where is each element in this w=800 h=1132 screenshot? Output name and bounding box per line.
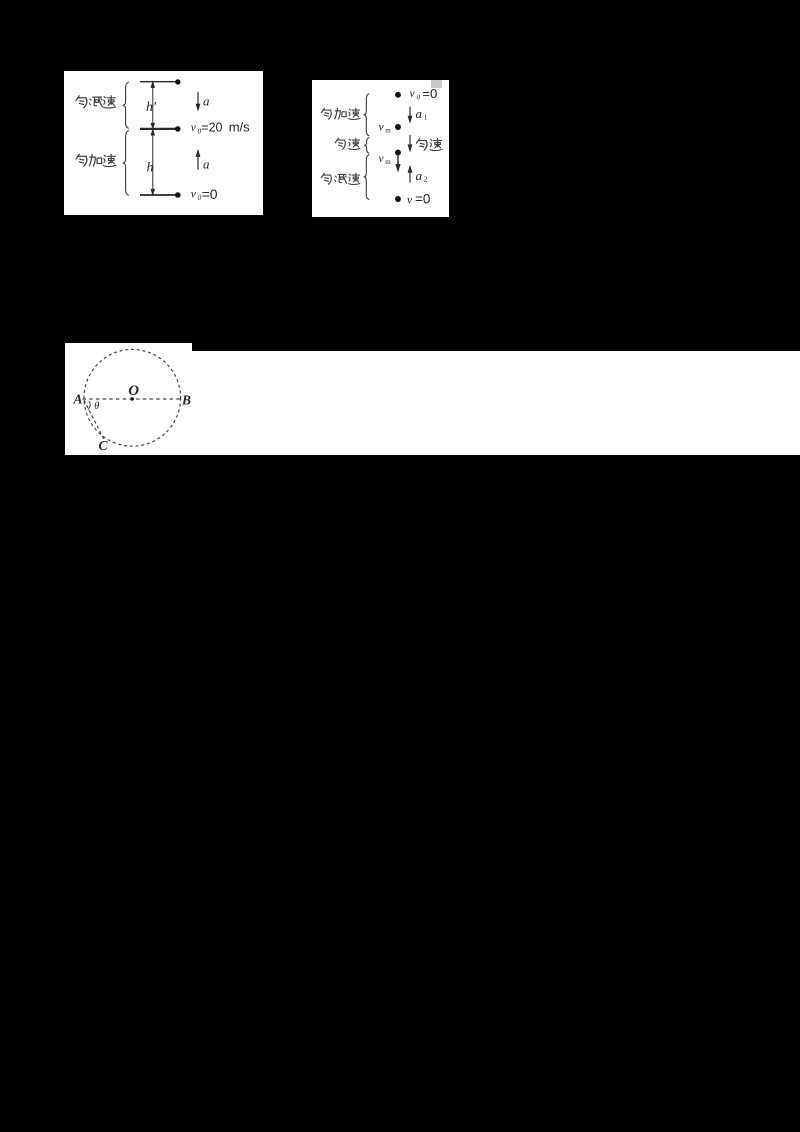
svg-text:θ: θ	[94, 401, 99, 412]
diagram 2: acceleration / uniform / deceleration phases	[312, 80, 449, 217]
dot 3	[395, 150, 401, 156]
arrow a (up)	[196, 151, 199, 170]
svg-text:v: v	[379, 153, 385, 165]
top level line	[140, 81, 180, 83]
center dot O	[131, 397, 134, 400]
diameter AB (dashed)	[83, 398, 183, 400]
svg-text:=0: =0	[202, 186, 218, 202]
svg-text:A: A	[73, 392, 83, 407]
label v0=0	[410, 86, 438, 101]
svg-text:v: v	[191, 122, 197, 134]
dimension arrow h' (double headed)	[151, 82, 154, 128]
chord AC (dashed)	[84, 400, 105, 441]
svg-text:0: 0	[417, 93, 421, 102]
label 匀速 (right of arrow)	[416, 139, 442, 151]
label v0=20 m/s	[191, 119, 250, 135]
dashed circle	[84, 349, 181, 446]
brace 1 (匀加速)	[364, 94, 370, 137]
svg-text:m/s: m/s	[229, 119, 250, 134]
svg-text:B: B	[181, 393, 191, 408]
dot top	[175, 79, 180, 84]
brace 3 (匀减速)	[364, 155, 370, 200]
svg-text:a: a	[203, 94, 210, 109]
dot mid	[175, 126, 181, 132]
dot 4	[395, 196, 401, 202]
arrow uniform (down)	[408, 135, 411, 150]
label 匀速 (left)	[335, 138, 360, 149]
brace lower (匀加速)	[123, 131, 129, 196]
svg-text:h′: h′	[146, 100, 157, 115]
svg-text:1: 1	[424, 113, 428, 122]
angle arc at A	[88, 401, 90, 409]
label 匀减速	[321, 173, 360, 184]
label 匀减速	[76, 96, 116, 108]
label 匀加速	[76, 154, 116, 166]
arrow a (down)	[196, 92, 199, 110]
label v0=0	[191, 186, 218, 202]
scanner gray patch	[431, 80, 442, 88]
dot 1	[395, 92, 401, 98]
label vm (first)	[379, 121, 392, 134]
svg-text:a: a	[416, 168, 423, 183]
svg-text:=0: =0	[422, 86, 437, 101]
arrow a1 (down)	[408, 107, 411, 122]
svg-text:v: v	[407, 194, 413, 206]
svg-text:=20: =20	[201, 120, 222, 134]
svg-text:v: v	[379, 121, 385, 133]
dot 2	[395, 124, 401, 130]
svg-text:v: v	[410, 88, 416, 100]
svg-text:O: O	[128, 383, 139, 399]
label vm (second)	[379, 153, 392, 166]
white strip	[65, 351, 800, 455]
brace 2 (匀速)	[364, 138, 369, 154]
svg-text:C: C	[99, 438, 109, 453]
arrow below dot3 (down)	[396, 154, 399, 171]
mid level line	[140, 128, 180, 130]
svg-text:h: h	[147, 161, 154, 176]
bottom level line	[140, 194, 180, 196]
svg-text:2: 2	[424, 175, 428, 184]
label a1	[416, 106, 428, 122]
svg-text:v: v	[191, 189, 197, 201]
svg-text:=0: =0	[415, 192, 430, 207]
svg-text:m: m	[385, 127, 391, 135]
svg-text:a: a	[203, 157, 210, 172]
dot bottom	[175, 192, 181, 198]
diagram 1: vertical throw free-fall diagram	[64, 71, 263, 215]
label v=0	[407, 192, 430, 207]
svg-text:a: a	[416, 106, 423, 121]
diagram 3: circle with chord	[65, 343, 215, 455]
label a2	[416, 168, 428, 184]
brace upper (匀减速)	[123, 82, 129, 129]
dimension arrow h (double headed)	[151, 130, 154, 195]
svg-text:m: m	[385, 158, 391, 166]
white step above circle	[65, 343, 192, 352]
label 匀加速	[321, 108, 360, 119]
arrow a2 (up)	[408, 167, 411, 183]
